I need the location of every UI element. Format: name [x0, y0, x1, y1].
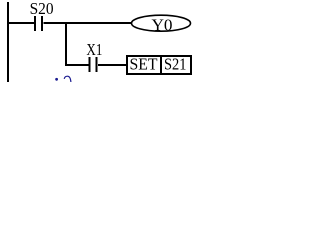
watermark f-hook (clipped blue italic text): [64, 76, 71, 82]
contact X1 left bar: [89, 57, 91, 72]
wire rung2 from contact X1 to SET box: [98, 64, 127, 66]
instruction box SET S21 outline: [127, 56, 191, 74]
contact X1 right bar: [96, 57, 98, 72]
wire rung1 from contact S20 to coil Y0: [44, 22, 132, 24]
watermark dot (clipped blue italic text): [55, 78, 58, 81]
svg-text:X1: X1: [86, 40, 102, 59]
svg-text:S21: S21: [164, 55, 187, 74]
contact S20 right bar: [41, 16, 43, 31]
wire rung1 from rail to contact S20: [9, 22, 34, 24]
wire rung2 from branch to contact X1: [67, 64, 89, 66]
coil Y0: [132, 15, 191, 31]
left power rail: [7, 2, 9, 82]
svg-text:SET: SET: [130, 55, 159, 74]
svg-text:Y0: Y0: [152, 16, 173, 35]
branch wire vertical drop: [65, 23, 67, 66]
instruction box divider: [160, 56, 162, 74]
contact S20 left bar: [34, 16, 36, 31]
svg-text:S20: S20: [30, 0, 54, 18]
